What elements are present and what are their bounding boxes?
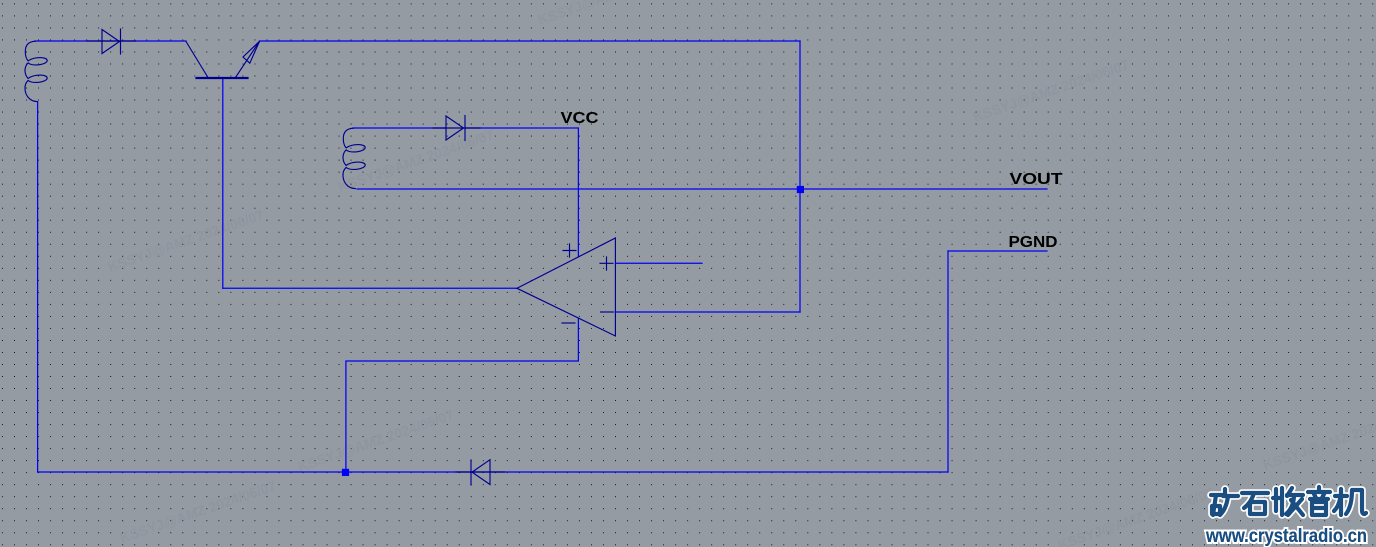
wire noninverting input stub (616, 262, 702, 264)
diode D2 (433, 116, 480, 141)
diode D1 (87, 29, 136, 54)
wire right vertical x=800 (799, 41, 801, 312)
wire L1 top to Q1 collector (35, 40, 186, 42)
yin (1308, 487, 1330, 515)
wire coil L2 to diode D2 (353, 127, 446, 129)
shi (1242, 493, 1268, 514)
ji (1334, 489, 1366, 515)
transistor Q1 (186, 41, 260, 78)
watermark logo 矿石收音机 (1211, 487, 1366, 515)
wire PGND horizontal (948, 250, 1047, 252)
wire bottom rail (38, 471, 948, 473)
svg-text:PGND: PGND (1009, 234, 1058, 251)
junction node at bottom rail (342, 469, 349, 476)
shou (1273, 488, 1303, 515)
wire op-amp output to base (223, 287, 517, 289)
wire PGND vertical (947, 251, 949, 472)
svg-text:VOUT: VOUT (1010, 171, 1063, 188)
wire VCC node down to op-amp top pin (465, 128, 578, 257)
wire top rail (emitter to right corner) (260, 40, 801, 42)
wire base vertical from transistor (222, 79, 224, 288)
wire VOUT horizontal (357, 188, 1047, 190)
junction node at VOUT (797, 186, 804, 193)
op-amp U1 (517, 238, 615, 336)
inductor L2 (343, 128, 365, 188)
wire feedback to inverting input (616, 311, 800, 313)
wire op-amp bottom pin down and left (346, 318, 579, 472)
svg-text:VCC: VCC (561, 110, 600, 127)
kuang (1211, 489, 1238, 515)
svg-text:www.crystalradio.cn: www.crystalradio.cn (1205, 526, 1367, 547)
inductor L1 (25, 41, 47, 101)
wire left vertical from coil L1 (37, 102, 39, 472)
diode D3 (456, 460, 505, 485)
